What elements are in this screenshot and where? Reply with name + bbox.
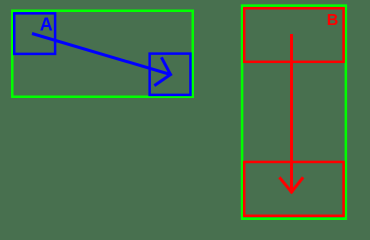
blue square 2 — [150, 54, 191, 95]
red rectangle bottom — [244, 162, 343, 216]
red arrow head barb left — [280, 179, 291, 193]
red rectangle top — [244, 8, 343, 62]
green rectangle (left group) — [12, 11, 193, 97]
blue arrow shaft — [32, 34, 171, 75]
blue square A — [14, 13, 55, 54]
blue arrow head barb upper — [162, 59, 170, 75]
green rectangle (right group) — [242, 6, 346, 219]
red arrow shaft — [290, 34, 293, 193]
blue arrow head barb lower — [156, 75, 171, 85]
red arrow head barb right — [292, 179, 303, 193]
svg-text:A: A — [40, 15, 53, 35]
svg-text:B: B — [327, 12, 339, 29]
